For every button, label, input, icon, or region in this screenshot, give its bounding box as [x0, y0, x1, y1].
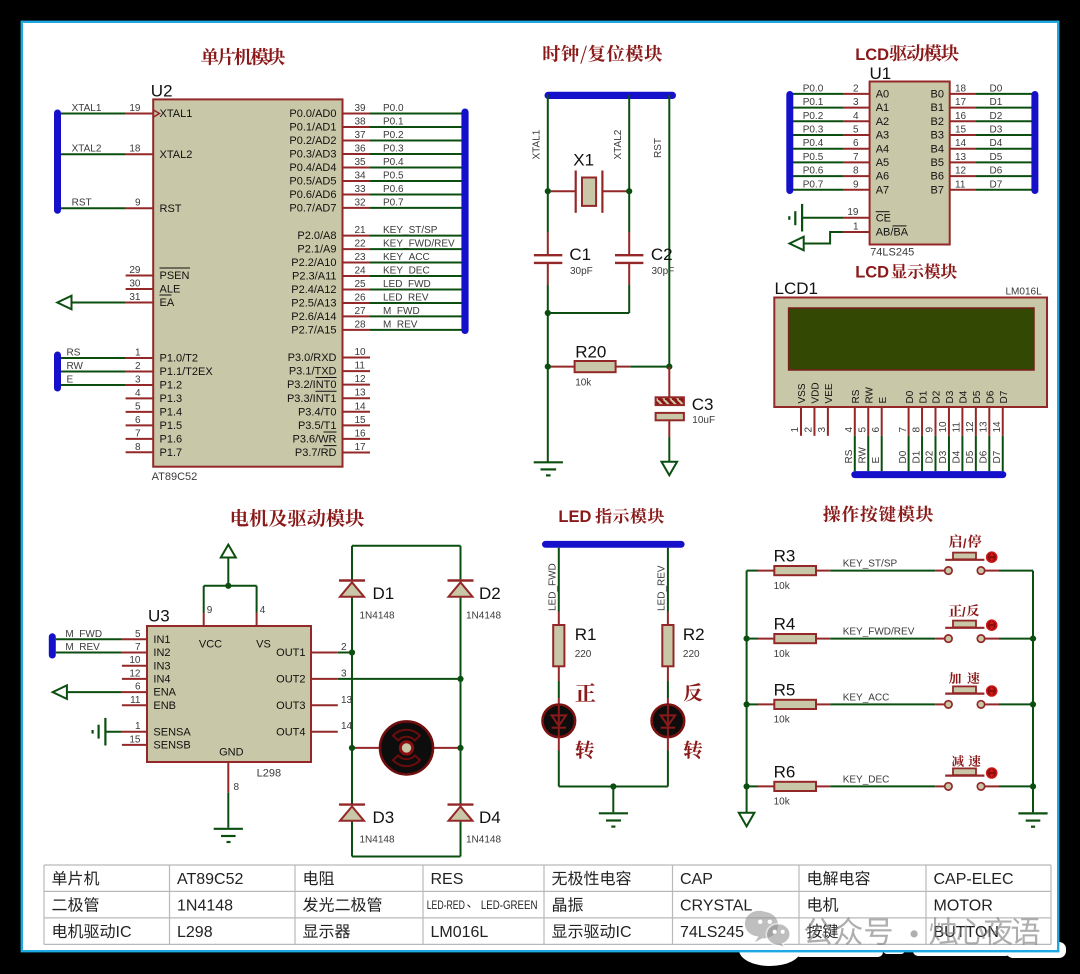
svg-text:P0.7: P0.7 [383, 197, 404, 208]
svg-text:P1.1/T2EX: P1.1/T2EX [160, 366, 214, 378]
U3 pin 12 (IN4) [122, 678, 147, 680]
bus left of U1 [786, 91, 793, 194]
svg-text:15: 15 [955, 125, 967, 136]
svg-text:C1: C1 [569, 245, 591, 264]
U3 pin 11 (ENB) [122, 704, 147, 706]
svg-text:P3.6/WR: P3.6/WR [292, 434, 336, 446]
svg-text:P0.5: P0.5 [803, 152, 824, 163]
svg-text:ENA: ENA [153, 687, 176, 699]
earth ground (clock module) [534, 461, 563, 463]
wire below C1 [547, 285, 549, 462]
U1 pin 17 (B1) [950, 107, 976, 109]
junction left rail [744, 701, 750, 707]
svg-text:RS: RS [851, 389, 862, 403]
table cell r2c1 [52, 899, 66, 910]
svg-text:KEY_DEC: KEY_DEC [843, 774, 890, 785]
svg-text:D3: D3 [990, 125, 1003, 136]
svg-text:P3.3/INT1: P3.3/INT1 [287, 393, 337, 405]
svg-text:1: 1 [790, 427, 801, 433]
svg-text:P1.5: P1.5 [160, 420, 183, 432]
title: clock/reset module 时钟/复位模块 [543, 45, 662, 64]
svg-text:6: 6 [871, 427, 882, 433]
svg-text:D1: D1 [918, 390, 929, 403]
XTAL1 clock marker [153, 110, 159, 117]
svg-text:1N4148: 1N4148 [466, 835, 501, 846]
wire P0.3 to U1 [792, 134, 844, 136]
svg-text:CE: CE [876, 212, 891, 224]
svg-text:1N4148: 1N4148 [466, 611, 501, 622]
U2 pin 2 (P1.1/T2EX) [126, 370, 154, 372]
wire XTAL2 [58, 153, 126, 155]
svg-text:XTAL1: XTAL1 [160, 108, 193, 120]
svg-text:8: 8 [234, 782, 240, 793]
svg-text:P0.5: P0.5 [383, 170, 404, 181]
U3 pin 9 (VCC) [203, 613, 205, 627]
svg-text:CAP-ELEC: CAP-ELEC [934, 871, 1014, 888]
svg-text:R5: R5 [774, 680, 796, 699]
svg-text:12: 12 [965, 421, 976, 433]
svg-text:10k: 10k [774, 797, 791, 808]
svg-text:P1.2: P1.2 [160, 380, 183, 392]
svg-text:22: 22 [355, 239, 367, 250]
svg-text:1N4148: 1N4148 [360, 611, 395, 622]
overline INT1 [316, 390, 337, 392]
svg-text:OUT4: OUT4 [276, 726, 305, 738]
svg-text:A2: A2 [876, 116, 889, 128]
U2 pin 10 (P3.0/RXD) [343, 357, 371, 359]
svg-text:P1.0/T2: P1.0/T2 [160, 353, 199, 365]
wire LCD D6 [988, 436, 990, 471]
wire M_REV [56, 652, 122, 654]
svg-text:10k: 10k [774, 581, 791, 592]
svg-text:3: 3 [341, 668, 347, 679]
svg-text:RST: RST [653, 138, 664, 158]
svg-text:P0.1: P0.1 [383, 116, 404, 127]
svg-text:P0.0: P0.0 [383, 103, 404, 114]
svg-text:CRYSTAL: CRYSTAL [680, 898, 752, 915]
svg-text:1N4148: 1N4148 [177, 898, 233, 915]
U1 pin 15 (B3) [950, 134, 976, 136]
svg-text:P0.4: P0.4 [383, 157, 404, 168]
table cell r1c3 [305, 871, 318, 885]
svg-text:P2.6/A14: P2.6/A14 [291, 311, 336, 323]
svg-text:XTAL2: XTAL2 [160, 149, 193, 161]
wire D2 [976, 120, 1033, 122]
U2 pin 3 (P1.2) [126, 384, 154, 386]
svg-text:9: 9 [853, 179, 859, 190]
svg-text:KEY_ST/SP: KEY_ST/SP [843, 559, 898, 570]
svg-text:10k: 10k [774, 649, 791, 660]
title: MCU module 单片机模块 [201, 48, 285, 65]
junction [545, 310, 551, 316]
wire net M_FWD [370, 315, 463, 317]
resistor R2 220 [667, 612, 669, 626]
svg-text:M_FWD: M_FWD [65, 629, 102, 640]
svg-text:D3: D3 [938, 450, 949, 463]
svg-text:10uF: 10uF [692, 415, 715, 426]
overline RD [324, 445, 337, 447]
watermark wechat icon [745, 911, 778, 943]
svg-text:D5: D5 [972, 390, 983, 403]
svg-text:10: 10 [938, 421, 949, 433]
U2 pin 4 (P1.3) [126, 397, 154, 399]
svg-text:RW: RW [67, 361, 84, 372]
LED bottom wire [558, 737, 560, 750]
svg-text:R20: R20 [575, 342, 606, 361]
svg-text:6: 6 [135, 682, 141, 693]
svg-text:LCD: LCD [855, 46, 889, 64]
svg-text:D2: D2 [479, 584, 501, 603]
PSEN overline [160, 267, 191, 269]
svg-text:P0.2: P0.2 [383, 130, 404, 141]
svg-text:P3.2/INT0: P3.2/INT0 [287, 379, 337, 391]
svg-text:R6: R6 [774, 762, 796, 781]
svg-text:GND: GND [219, 747, 244, 759]
U1 pin 13 (B5) [950, 161, 976, 163]
svg-text:VSS: VSS [797, 383, 808, 403]
svg-text:E: E [871, 457, 882, 464]
EA overline [160, 294, 172, 296]
table cell r1c7 [809, 871, 822, 885]
wire net P0.5 [370, 180, 463, 182]
svg-text:4: 4 [853, 111, 859, 122]
svg-text:D7: D7 [999, 390, 1010, 403]
svg-text:B6: B6 [931, 171, 944, 183]
svg-text:LED_FWD: LED_FWD [548, 563, 559, 611]
ENA wire with arrow [57, 691, 122, 693]
svg-text:11: 11 [952, 422, 963, 433]
title: motor &amp; driver module 电机及驱动模块 [232, 509, 364, 527]
capacitor C1 30pF [547, 232, 549, 254]
svg-text:R2: R2 [683, 625, 705, 644]
LED 2 (反转) [667, 681, 669, 698]
table cell r3c1 [54, 924, 67, 938]
svg-text:38: 38 [355, 116, 367, 127]
svg-text:1: 1 [135, 348, 141, 359]
wire LCD D7 [1002, 436, 1004, 471]
svg-text:LM016L: LM016L [431, 924, 489, 941]
U2 pin 15 (P3.5/T1) [343, 424, 371, 426]
svg-text:4: 4 [135, 388, 141, 399]
wire XTAL2 vertical [628, 95, 630, 232]
wire D7 [976, 189, 1033, 191]
svg-text:4: 4 [844, 427, 855, 433]
table cell r2c7 [809, 897, 822, 911]
svg-text:18: 18 [955, 83, 967, 94]
wire right rail [460, 546, 462, 581]
svg-text:6: 6 [135, 415, 141, 426]
U3 pin 5 (IN1) [122, 638, 147, 640]
svg-text:3: 3 [853, 97, 859, 108]
svg-text:P2.0/A8: P2.0/A8 [297, 230, 336, 242]
wire LCD D3 [948, 436, 950, 471]
U2 pin 21 (P2.0/A8) [343, 235, 371, 237]
U1 pin 2 (A0) [843, 93, 869, 95]
svg-text:R3: R3 [774, 547, 796, 566]
U2 pin 7 (P1.6) [126, 438, 154, 440]
svg-text:D3: D3 [373, 808, 395, 827]
label 减速 [952, 755, 981, 767]
svg-text:P3.7/RD: P3.7/RD [295, 447, 337, 459]
svg-text:P2.5/A13: P2.5/A13 [291, 298, 336, 310]
wire below C2 [628, 285, 630, 313]
EA wire with arrow [62, 302, 126, 304]
svg-text:P2.2/A10: P2.2/A10 [291, 257, 336, 269]
svg-text:U1: U1 [870, 64, 892, 83]
U1 pin 5 (A3) [843, 134, 869, 136]
component table [44, 865, 1051, 944]
svg-text:D1: D1 [911, 450, 922, 463]
svg-text:D0: D0 [990, 83, 1003, 94]
U3 pin 6 (ENA) [122, 691, 147, 693]
wire XTAL1 vertical [547, 95, 549, 232]
wire net KEY_ST/SP [370, 235, 463, 237]
U2 pin 30 (ALE) [126, 288, 154, 290]
svg-text:KEY_ACC: KEY_ACC [843, 692, 890, 703]
svg-text:ENB: ENB [153, 700, 176, 712]
svg-text:5: 5 [135, 401, 141, 412]
U2 pin 38 (P0.1/AD1) [343, 126, 371, 128]
svg-text:6: 6 [853, 138, 859, 149]
svg-text:XTAL1: XTAL1 [532, 129, 543, 159]
svg-text:220: 220 [683, 649, 700, 660]
wire net KEY_ACC [830, 703, 935, 705]
U2 pin 24 (P2.3/A11) [343, 275, 371, 277]
svg-text:P2.4/A12: P2.4/A12 [291, 284, 336, 296]
svg-text:8: 8 [911, 427, 922, 433]
svg-text:P0.3/AD3: P0.3/AD3 [289, 149, 336, 161]
diode D4 1N4148 [448, 803, 474, 805]
wire D6 [976, 175, 1033, 177]
svg-text:D3: D3 [945, 390, 956, 403]
svg-text:LED_FWD: LED_FWD [383, 279, 431, 290]
svg-text:31: 31 [129, 292, 141, 303]
svg-text:16: 16 [955, 111, 967, 122]
bus XTAL/RST [54, 110, 61, 214]
svg-text:D5: D5 [990, 152, 1003, 163]
svg-text:14: 14 [992, 421, 1003, 433]
U2 pin 17 (P3.7/RD) [343, 451, 371, 453]
svg-text:A4: A4 [876, 143, 889, 155]
right rail (buttons) [1032, 571, 1034, 813]
svg-text:19: 19 [847, 207, 859, 218]
svg-text:13: 13 [341, 695, 353, 706]
svg-text:P3.1/TXD: P3.1/TXD [289, 366, 337, 378]
wire GND [227, 793, 229, 828]
wire OUT2 [338, 678, 461, 680]
junction right rail [1030, 636, 1036, 642]
svg-text:OUT2: OUT2 [276, 674, 305, 686]
svg-text:RW: RW [857, 446, 868, 463]
svg-text:10k: 10k [575, 378, 592, 389]
U2 pin 8 (P1.7) [126, 451, 154, 453]
svg-text:4: 4 [260, 605, 266, 616]
power bus (clock module) [545, 92, 677, 99]
junction XTAL1/X1 [545, 188, 551, 194]
svg-text:PSEN: PSEN [160, 270, 190, 282]
capacitor C3 10uF (electrolytic) [668, 367, 670, 398]
wire top rail [352, 545, 461, 547]
diode D1 1N4148 [339, 579, 365, 581]
svg-text:E: E [67, 375, 74, 386]
svg-text:11: 11 [130, 695, 141, 706]
svg-text:15: 15 [129, 734, 141, 745]
svg-text:P0.5/AD5: P0.5/AD5 [289, 176, 336, 188]
wire LCD D2 [935, 436, 937, 471]
svg-text:LED_REV: LED_REV [657, 565, 668, 611]
button (正/反) [935, 638, 944, 640]
junction power [225, 583, 231, 589]
svg-text:34: 34 [355, 170, 367, 181]
svg-text:EA: EA [160, 297, 175, 309]
svg-text:30: 30 [129, 279, 141, 290]
U2 pin 1 (P1.0/T2) [126, 357, 154, 359]
svg-text:2: 2 [135, 361, 141, 372]
svg-text:12: 12 [355, 374, 367, 385]
svg-text:/: / [962, 604, 966, 619]
wire net M_REV [370, 329, 463, 331]
svg-text:SENSB: SENSB [153, 740, 190, 752]
svg-text:13: 13 [979, 421, 990, 433]
svg-text:RST: RST [72, 198, 92, 209]
junction right rail [1030, 783, 1036, 789]
svg-text:VCC: VCC [199, 638, 222, 650]
ground arrow (RST) [668, 437, 670, 462]
svg-text:A3: A3 [876, 130, 889, 142]
svg-text:D4: D4 [479, 808, 501, 827]
svg-text:D6: D6 [986, 390, 997, 403]
U1 pin 12 (B6) [950, 175, 976, 177]
ground arrow (left rail) [739, 813, 755, 827]
svg-text:B5: B5 [931, 157, 944, 169]
svg-text:18: 18 [129, 144, 141, 155]
svg-text:15: 15 [355, 415, 367, 426]
svg-text:L298: L298 [257, 768, 281, 780]
svg-text:VS: VS [256, 638, 271, 650]
wire net LED_FWD [370, 288, 463, 290]
svg-text:10k: 10k [774, 715, 791, 726]
svg-text:D7: D7 [992, 450, 1003, 463]
title: button module 操作按键模块 [823, 505, 933, 522]
diode D2 1N4148 [448, 579, 474, 581]
svg-text:8: 8 [853, 166, 859, 177]
svg-text:/: / [963, 536, 967, 551]
U3 pin 7 (IN2) [122, 652, 147, 654]
svg-text:D5: D5 [965, 450, 976, 463]
U1 pin 8 (A6) [843, 175, 869, 177]
svg-text:7: 7 [853, 152, 859, 163]
U2 pin 12 (P3.2/INT0) [343, 384, 371, 386]
wire P0.1 to U1 [792, 107, 844, 109]
U2 pin 25 (P2.4/A12) [343, 288, 371, 290]
svg-text:D4: D4 [990, 138, 1003, 149]
svg-text:P0.6: P0.6 [803, 166, 824, 177]
U2 pin 16 (P3.6/WR) [343, 438, 371, 440]
U2 pin 36 (P0.3/AD3) [343, 153, 371, 155]
svg-text:IC: IC [616, 924, 632, 941]
U2 pin 5 (P1.4) [126, 411, 154, 413]
svg-text:RST: RST [160, 203, 182, 215]
wire P0.0 to U1 [792, 93, 844, 95]
svg-text:12: 12 [129, 668, 141, 679]
U2 pin 19 (XTAL1) [126, 113, 154, 115]
svg-text:12: 12 [955, 166, 967, 177]
svg-text:D6: D6 [990, 166, 1003, 177]
wire M_FWD [56, 638, 122, 640]
U2 pin 37 (P0.2/AD2) [343, 139, 371, 141]
svg-text:LED: LED [558, 508, 591, 526]
svg-text:P3.4/T0: P3.4/T0 [298, 406, 337, 418]
svg-text:P0.6: P0.6 [383, 184, 404, 195]
svg-text:2: 2 [341, 642, 347, 653]
wire net P0.4 [370, 166, 463, 168]
U2 pin 18 (XTAL2) [126, 153, 154, 155]
junction R20 right [666, 364, 672, 370]
wire P0.2 to U1 [792, 120, 844, 122]
button (加速) [935, 703, 944, 705]
wire RST [58, 207, 126, 209]
U2 pin 27 (P2.6/A14) [343, 315, 371, 317]
svg-text:B2: B2 [931, 116, 944, 128]
wire net P0.6 [370, 193, 463, 195]
U1 pin 18 (B0) [950, 93, 976, 95]
U2 pin 29 (PSEN) [126, 275, 154, 277]
junction left rail [744, 783, 750, 789]
diode D3 1N4148 [339, 803, 365, 805]
svg-text:27: 27 [355, 306, 367, 317]
svg-text:VEE: VEE [824, 383, 835, 403]
svg-text:1: 1 [135, 721, 141, 732]
svg-text:CAP: CAP [680, 871, 713, 888]
wire net P0.1 [370, 126, 463, 128]
svg-text:B4: B4 [931, 143, 944, 155]
LED bus [542, 541, 685, 548]
junction XTAL2/X1 [626, 188, 632, 194]
table cell r2c5 [553, 898, 566, 912]
wire pin1 to arrow [804, 232, 843, 244]
svg-text:21: 21 [355, 225, 367, 236]
power bracket wires [203, 586, 205, 613]
U1 pin 16 (B2) [950, 120, 976, 122]
svg-text:OUT1: OUT1 [276, 647, 305, 659]
svg-text:13: 13 [355, 388, 367, 399]
wire LCD RW [867, 436, 869, 471]
junction left rail [744, 636, 750, 642]
wire left rail [351, 546, 353, 581]
earth ground (U3) [214, 828, 243, 830]
svg-text:AT89C52: AT89C52 [152, 471, 198, 483]
U2 pin 26 (P2.5/A13) [343, 302, 371, 304]
wire P0.4 to U1 [792, 148, 844, 150]
char 反 [684, 683, 703, 702]
char 转 [575, 740, 594, 758]
svg-text:10: 10 [355, 347, 367, 358]
D3 top rail red stubs [351, 748, 353, 805]
svg-text:MOTOR: MOTOR [934, 898, 993, 915]
svg-text:36: 36 [355, 143, 367, 154]
power arrow up [227, 558, 229, 586]
svg-text:32: 32 [355, 197, 367, 208]
wire D4 [976, 148, 1033, 150]
svg-text:IN4: IN4 [153, 674, 170, 686]
svg-text:P0.1: P0.1 [803, 97, 824, 108]
svg-text:A5: A5 [876, 157, 889, 169]
svg-text:B0: B0 [931, 89, 944, 101]
wire P0.6 to U1 [792, 175, 844, 177]
wire E [58, 384, 126, 386]
U1 pin 1 (AB/BA) [843, 231, 869, 233]
wire OUT1 [338, 652, 352, 654]
